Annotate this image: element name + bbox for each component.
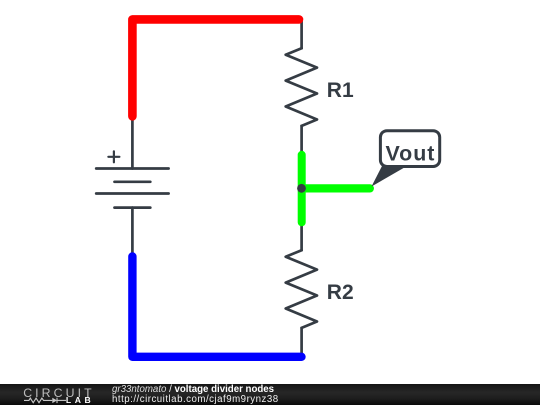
svg-text:R1: R1 [327, 79, 354, 102]
svg-text:R2: R2 [327, 281, 354, 304]
svg-text:Vout: Vout [386, 141, 436, 165]
svg-text:LAB: LAB [66, 395, 94, 405]
